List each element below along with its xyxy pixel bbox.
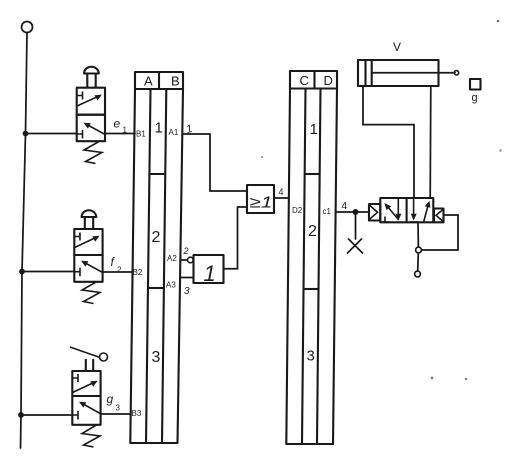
svg-text:3: 3 — [307, 348, 315, 365]
return spring — [82, 282, 100, 304]
right square port tick — [410, 221, 418, 223]
left square cross flow arrow — [387, 206, 399, 220]
internal column lines — [302, 89, 321, 445]
input port tick — [75, 268, 80, 277]
inverter / amplifier U1 — [194, 255, 224, 283]
input port tick — [77, 130, 83, 139]
right square up flow arrow — [424, 206, 428, 222]
header divider — [158, 72, 160, 89]
row divider 1-2 — [305, 173, 320, 175]
valve f2 (3/2 pushbutton valve) — [74, 210, 102, 303]
wire A2 to inverter input — [181, 259, 188, 261]
wire OR to D2 — [274, 197, 289, 199]
junction node e1 branch — [23, 131, 29, 137]
cylinder V — [358, 40, 459, 86]
svg-text:1: 1 — [204, 261, 216, 286]
svg-text:B2: B2 — [133, 268, 143, 277]
position divider — [406, 198, 408, 222]
wire f2 to B2 — [103, 271, 132, 273]
input port tick — [73, 411, 78, 420]
svg-text:1: 1 — [310, 121, 318, 138]
wire supply to valve f2 — [22, 271, 74, 273]
header box — [290, 71, 337, 89]
svg-text:C: C — [300, 73, 309, 88]
bottom square flow arrow (to exhaust) — [85, 124, 105, 135]
wire c1 to pilot — [336, 211, 369, 213]
svg-text:D2: D2 — [292, 206, 303, 215]
pushbutton stem — [87, 74, 95, 88]
svg-text:4: 4 — [279, 187, 284, 197]
pushbutton stem — [85, 217, 93, 229]
svg-text:1: 1 — [155, 120, 163, 137]
svg-text:3: 3 — [184, 286, 190, 297]
bottom square flow arrow — [83, 262, 103, 273]
wire e1 to B1 — [105, 133, 135, 135]
row divider 1-2 — [149, 173, 165, 175]
limit switch marker g — [470, 79, 481, 90]
plugged port X — [347, 239, 363, 254]
valve body squares — [72, 371, 100, 396]
svg-text:2: 2 — [117, 266, 122, 275]
valve body squares — [77, 88, 105, 115]
body outline (slight scan skew) — [130, 89, 183, 443]
bottom square flow arrow — [81, 403, 101, 414]
supply point circle upper — [416, 247, 422, 253]
pushbutton cap — [82, 210, 97, 217]
svg-text:g: g — [472, 92, 478, 104]
valve body squares — [74, 229, 102, 255]
row divider 2-3 — [148, 287, 164, 289]
wire inverter to OR gate — [224, 207, 248, 269]
pushbutton cap — [84, 67, 99, 74]
svg-text:2: 2 — [308, 223, 317, 240]
svg-text:c1: c1 — [323, 207, 332, 216]
stepper module AB — [130, 72, 183, 443]
inverter negation circle — [188, 257, 194, 263]
stepper module CD — [286, 71, 337, 444]
top square flow arrow — [77, 95, 101, 106]
svg-text:≥1: ≥1 — [250, 195, 273, 212]
piston rod — [372, 72, 455, 74]
wire A3 to inverter — [181, 277, 194, 279]
svg-text:g: g — [107, 392, 114, 406]
svg-text:3: 3 — [116, 404, 121, 413]
wire right pilot to supply circles — [421, 215, 458, 250]
svg-text:A2: A2 — [167, 254, 177, 263]
cylinder barrel — [358, 60, 439, 86]
left square down flow — [397, 199, 399, 216]
svg-text:4: 4 — [342, 201, 348, 212]
svg-text:B: B — [171, 74, 180, 89]
body outline (slight scan skew) — [286, 89, 337, 445]
right square down flow — [413, 199, 415, 216]
supply point circle lower — [415, 271, 421, 277]
svg-text:2: 2 — [183, 246, 189, 256]
roller lever — [70, 347, 100, 358]
pilot actuator right — [434, 209, 444, 223]
wire between supply circles — [417, 253, 420, 271]
wire supply to valve g3 — [21, 414, 72, 416]
OR gate U2 — [247, 185, 274, 213]
wire cylinder left port to valve — [363, 86, 414, 198]
body — [380, 198, 433, 222]
top square blocked port mark — [77, 92, 83, 100]
svg-text:V: V — [393, 40, 401, 54]
directional valve V1 (4/2) — [380, 198, 433, 222]
wire valve P port down — [417, 222, 419, 247]
top square blocked port mark — [75, 233, 80, 241]
wire g3 to B3 — [101, 413, 131, 415]
supply line vertical — [21, 33, 28, 448]
svg-text:B3: B3 — [132, 409, 142, 418]
piston double line — [366, 60, 372, 86]
internal column lines — [146, 89, 166, 443]
svg-text:B1: B1 — [136, 130, 146, 139]
junction node f2 branch — [19, 269, 25, 275]
svg-text:D: D — [324, 73, 333, 88]
svg-text:A: A — [144, 74, 153, 89]
wire A1 to OR gate — [183, 134, 247, 191]
valve e1 (3/2 pushbutton valve) — [77, 67, 105, 164]
junction node g3 branch — [18, 412, 24, 418]
svg-text:e: e — [114, 117, 121, 131]
wire supply to valve e1 — [26, 133, 78, 135]
svg-text:2: 2 — [152, 229, 161, 246]
wire cylinder right port to valve — [429, 86, 432, 198]
top square flow arrow — [75, 237, 98, 248]
pilot actuator left — [369, 204, 380, 221]
row divider 2-3 — [304, 288, 319, 290]
stem — [86, 359, 93, 371]
svg-text:A3: A3 — [166, 281, 176, 290]
return spring — [82, 425, 100, 447]
scan specks — [497, 20, 500, 23]
svg-text:3: 3 — [152, 349, 161, 366]
header box — [135, 72, 183, 89]
top square blocked port mark — [73, 374, 78, 382]
plugged branch wire — [355, 212, 357, 239]
left square supply port tick — [381, 217, 389, 223]
top square flow arrow — [73, 382, 96, 393]
rod end — [454, 71, 458, 75]
svg-text:A1: A1 — [169, 128, 179, 137]
return spring — [84, 142, 102, 164]
valve g3 (3/2 roller lever valve) — [70, 347, 108, 447]
header divider — [313, 71, 315, 89]
air supply source circle — [22, 22, 33, 33]
junction node — [353, 209, 359, 215]
